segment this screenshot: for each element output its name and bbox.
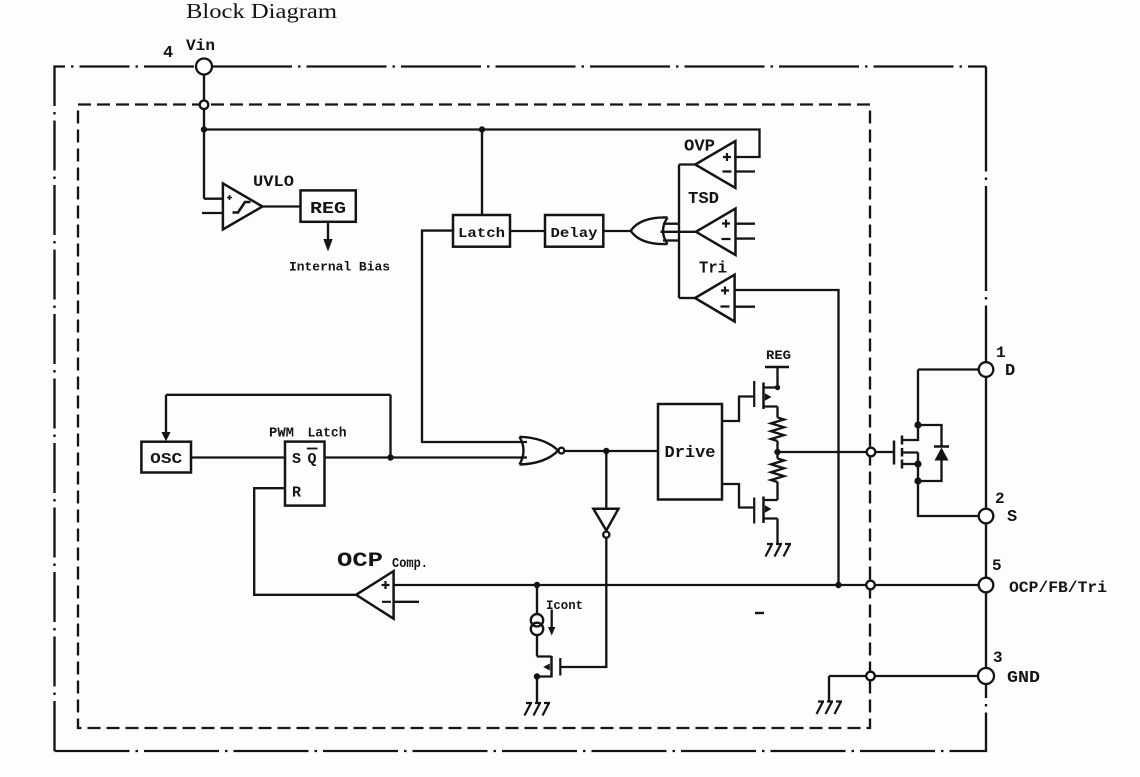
wire Tri output to bus xyxy=(679,297,695,299)
node junction Vin bus at x=204 xyxy=(201,126,207,132)
svg-text:PWM: PWM xyxy=(269,426,294,442)
inverter triangle xyxy=(593,509,618,531)
wire Vin vertical drop xyxy=(203,75,205,199)
node junction diode bottom xyxy=(914,477,921,484)
pin 3 GND terminal xyxy=(978,668,994,684)
svg-text:Block Diagram: Block Diagram xyxy=(186,0,337,23)
op-amp UVLO comparator xyxy=(223,183,263,229)
wire OVP output to bus xyxy=(679,163,695,165)
transistor Q2 (lower driver FET) xyxy=(753,498,755,524)
transistor Q3 body and source leads xyxy=(902,453,918,482)
wire Tri plus input long wire down to OCP bus xyxy=(735,290,839,585)
wire OR gate top input from bus xyxy=(663,223,679,225)
connector circle on inner boundary (GND) xyxy=(866,672,875,681)
node junction bus at x=482 (Latch drop) xyxy=(479,126,485,132)
svg-text:OVP: OVP xyxy=(684,138,715,157)
wire right edge pin OCP to pin GND xyxy=(985,593,987,668)
wire R input from OCP comparator xyxy=(254,488,356,595)
svg-text:OSC: OSC xyxy=(150,451,182,468)
wire gate drive node to package FET gate xyxy=(778,451,867,453)
wire UVLO output to REG xyxy=(262,205,300,207)
transistor Q3 drain lead xyxy=(902,370,918,441)
pin 2 S terminal xyxy=(979,509,994,524)
svg-text:REG: REG xyxy=(766,348,791,363)
svg-text:GND: GND xyxy=(1007,668,1040,687)
wire TSD output through bus into OR gate xyxy=(661,231,696,233)
block Latch box xyxy=(453,215,510,247)
node junction Q output xyxy=(387,454,393,460)
wire OR gate bottom input from bus xyxy=(663,239,679,241)
wire Latch top input drop xyxy=(481,130,483,216)
wire inverter output down to Icont FET gate xyxy=(561,538,607,667)
ground symbol below Q4 xyxy=(525,703,551,716)
wire OCP bus y=585 xyxy=(394,584,979,586)
svg-text:Internal Bias: Internal Bias xyxy=(289,260,390,275)
block PWM latch box xyxy=(285,442,325,506)
wire feedback left drop with arrow into OSC xyxy=(165,395,167,433)
outer package boundary bottom + right-lower (dash-dot) xyxy=(55,685,987,752)
wire UVLO plus input xyxy=(204,198,223,200)
svg-text:TSD: TSD xyxy=(688,190,719,209)
wire Q output to NOR input xyxy=(325,456,528,458)
inner IC boundary (dashed) xyxy=(78,105,870,729)
wire inverter branch vertical xyxy=(605,451,607,509)
wire UVLO minus stub xyxy=(202,212,223,214)
wire TSD minus stub xyxy=(736,237,756,239)
wire Icont branch down xyxy=(536,585,538,615)
transistor Q3 gate plate xyxy=(893,441,896,465)
diode cathode bar xyxy=(934,445,949,448)
arrow Icont direction xyxy=(551,610,553,629)
wire Q3 drain to pin D xyxy=(918,368,979,370)
wire right edge pin S to pin OCP xyxy=(985,524,987,579)
node junction Q4 source xyxy=(534,673,540,679)
node junction Icont branch xyxy=(534,582,540,588)
wire OVP minus stub xyxy=(735,170,755,172)
wire OSC to S input xyxy=(191,456,285,458)
op-amp OVP comparator xyxy=(695,141,735,188)
wire current source to Q4 drain xyxy=(536,635,538,657)
wire Q2 source to ground xyxy=(776,519,778,545)
svg-text:3: 3 xyxy=(993,649,1003,667)
svg-text:S: S xyxy=(292,451,301,468)
ground symbol internal GND xyxy=(817,702,843,715)
node junction inverter branch xyxy=(603,448,609,454)
connector circle on inner boundary (OCP bus) xyxy=(866,581,875,590)
wire NOR output to Drive xyxy=(564,450,658,452)
pin 4 Vin terminal xyxy=(196,59,212,75)
svg-text:S: S xyxy=(1007,508,1017,527)
diode triangle xyxy=(935,448,949,461)
node junction Tri wire on OCP bus xyxy=(835,582,841,588)
transistor Q3 channel segments xyxy=(901,436,904,469)
transistor Q4 (Icont switch FET) xyxy=(537,657,552,677)
svg-text:1: 1 xyxy=(996,344,1006,362)
block OSC box xyxy=(141,442,191,473)
node junction source lead xyxy=(914,460,921,467)
svg-text:UVLO: UVLO xyxy=(253,173,294,191)
wire R1 to output node xyxy=(776,441,778,459)
resistor R1 xyxy=(771,418,784,441)
wire R2 to Q2 drain xyxy=(776,482,778,500)
NOR output bubble xyxy=(559,448,565,454)
svg-text:Vin: Vin xyxy=(186,37,215,55)
current source Icont xyxy=(531,614,543,626)
artifact small dash xyxy=(755,612,764,614)
OR gate (protection combiner, facing left) xyxy=(631,217,668,244)
node junction Q1 drain xyxy=(775,385,780,390)
svg-text:Drive: Drive xyxy=(665,444,716,463)
pin 5 OCP/FB/Tri terminal xyxy=(979,578,994,593)
wire REG bar to Q1 drain xyxy=(776,367,778,388)
wire Q1 source to R1 xyxy=(776,407,778,418)
diode body diode wiring xyxy=(918,425,942,481)
inverter bubble xyxy=(603,532,609,538)
wire Drive to Q1 gate xyxy=(722,397,754,422)
svg-text:Q: Q xyxy=(308,451,317,468)
svg-text:Comp.: Comp. xyxy=(392,557,428,572)
connector circle on inner boundary (Vin) xyxy=(200,101,209,110)
node junction diode top xyxy=(914,421,921,428)
svg-text:5: 5 xyxy=(992,557,1002,575)
wire OSC feedback loop top xyxy=(166,394,391,396)
wire feedback right drop to Q output xyxy=(389,395,391,458)
svg-text:OCP/FB/Tri: OCP/FB/Tri xyxy=(1009,579,1107,597)
svg-text:Latch: Latch xyxy=(458,226,505,242)
wire Latch left output down to NOR input xyxy=(422,231,527,442)
outer package boundary top-right + right-upper (dash-dot) xyxy=(212,65,986,67)
wire Drive to Q2 gate xyxy=(722,484,754,508)
svg-text:D: D xyxy=(1005,362,1015,381)
block REG box xyxy=(301,190,356,221)
svg-text:Tri: Tri xyxy=(699,260,727,279)
wire right edge pin D to pin S xyxy=(985,377,987,509)
block Drive box xyxy=(658,404,722,500)
resistor R2 xyxy=(771,459,784,482)
svg-text:R: R xyxy=(292,485,301,502)
transistor Q3 (power MOSFET) gate wire xyxy=(875,451,894,453)
op-amp Tri comparator xyxy=(695,275,735,322)
wire Q4 source to ground xyxy=(536,677,538,704)
wire Vin bus horizontal y=129.5 to OVP plus input xyxy=(204,130,760,158)
power rail REG bar xyxy=(765,366,789,369)
svg-text:REG: REG xyxy=(310,200,346,219)
ground symbol below Q2 xyxy=(766,544,792,557)
node junction gate drive output xyxy=(774,449,780,455)
outer package boundary left+top-left (dash-dot) xyxy=(55,67,197,752)
wire GND riser to ground symbol xyxy=(828,676,830,702)
svg-text:OCP: OCP xyxy=(337,550,383,573)
op-amp OCP comparator xyxy=(356,571,394,619)
block Delay box xyxy=(545,215,603,247)
wire REG output arrow to Internal Bias xyxy=(327,222,329,240)
pin 1 D terminal xyxy=(979,362,994,377)
svg-text:Delay: Delay xyxy=(551,226,599,242)
wire comparator output bus vertical x=679 xyxy=(678,165,680,299)
wire TSD plus stub xyxy=(736,223,756,225)
svg-text:2: 2 xyxy=(995,490,1005,508)
transistor Q1 (upper driver FET) xyxy=(753,381,755,407)
connector circle on inner boundary (gate drive) xyxy=(867,448,876,457)
wire Delay to OR gate xyxy=(603,230,632,232)
svg-text:4: 4 xyxy=(163,44,173,63)
svg-text:Latch: Latch xyxy=(308,426,347,442)
op-amp TSD comparator xyxy=(696,209,736,256)
wire Latch to Delay xyxy=(510,230,545,232)
wire GND row xyxy=(829,675,978,677)
wire Tri minus stub xyxy=(735,306,755,308)
wire OCP minus stub xyxy=(394,601,419,603)
wire Q3 source to pin S xyxy=(918,481,979,516)
NOR gate (drive logic, facing right) xyxy=(520,437,559,465)
